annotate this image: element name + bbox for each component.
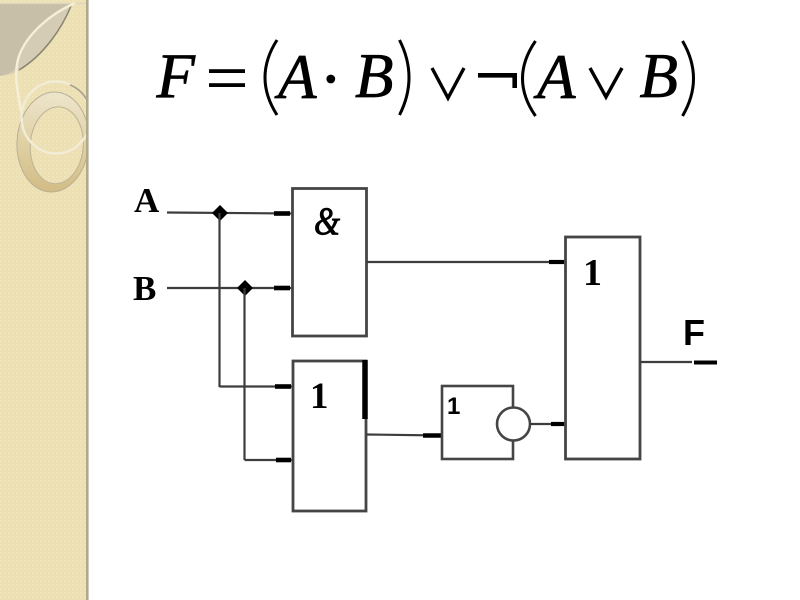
wire B horizontal — [167, 287, 292, 289]
svg-text:F: F — [683, 312, 705, 353]
leaf decoration light part — [0, 4, 72, 76]
NOT gate inversion bubble — [497, 408, 530, 441]
stub AND input 2 — [274, 286, 290, 291]
thin circle outline dark upper right arc — [70, 85, 92, 128]
formula dot — [326, 75, 335, 84]
svg-text:B: B — [133, 269, 156, 308]
svg-text:1: 1 — [447, 393, 460, 420]
ring — [14, 90, 93, 195]
formula open paren 2 — [523, 41, 536, 116]
svg-text:B: B — [640, 41, 678, 111]
OR gate U2 thick right bar — [362, 360, 368, 419]
formula close paren 1 — [400, 40, 410, 115]
stub NOT input — [423, 433, 441, 438]
wire output F — [640, 361, 692, 363]
formula equals — [209, 69, 245, 73]
formula open paren 1 — [265, 40, 277, 115]
formula vee 2 — [590, 68, 622, 97]
junction node A — [212, 205, 228, 221]
wire A horizontal — [167, 213, 292, 214]
svg-text:A: A — [533, 42, 576, 112]
junction node B — [237, 280, 253, 296]
formula close paren 2 — [683, 41, 694, 116]
svg-text:A: A — [274, 42, 317, 112]
top strip line — [0, 3, 86, 4]
svg-text:1: 1 — [310, 376, 329, 417]
thin circle outline cream — [22, 82, 91, 154]
wire B vertical drop — [243, 288, 245, 460]
output F dash — [694, 361, 717, 365]
formula vee 1 — [432, 68, 464, 98]
wire OR output to NOT — [366, 435, 442, 436]
leaf decoration dark part — [0, 4, 74, 76]
wire NOT output to OR2 — [530, 423, 565, 425]
stub OR2 input 1 — [549, 260, 564, 264]
leaf dark arc — [19, 6, 71, 70]
stub AND input 1 — [274, 211, 290, 216]
wire B to OR input — [245, 459, 293, 461]
OR gate U2 box — [293, 361, 366, 511]
stub OR input 1 — [275, 384, 291, 389]
vine curve — [16, 3, 75, 111]
sidebar background — [0, 0, 86, 600]
OR gate U4 box — [566, 237, 641, 459]
NOT gate U3 box — [442, 386, 513, 459]
svg-text:&: & — [314, 200, 341, 243]
svg-text:1: 1 — [583, 252, 602, 294]
wire A to OR input — [220, 385, 293, 387]
svg-text:B: B — [355, 41, 393, 111]
svg-text:F: F — [156, 41, 196, 111]
stub OR2 input 2 — [551, 422, 564, 426]
formula not sign — [478, 73, 517, 88]
sidebar edge line — [86, 0, 89, 600]
wire A vertical drop — [218, 213, 220, 387]
AND gate U1 box — [293, 189, 367, 337]
wire AND output to OR2 — [367, 261, 566, 263]
svg-text:A: A — [134, 181, 160, 220]
stub OR input 2 — [276, 458, 291, 463]
